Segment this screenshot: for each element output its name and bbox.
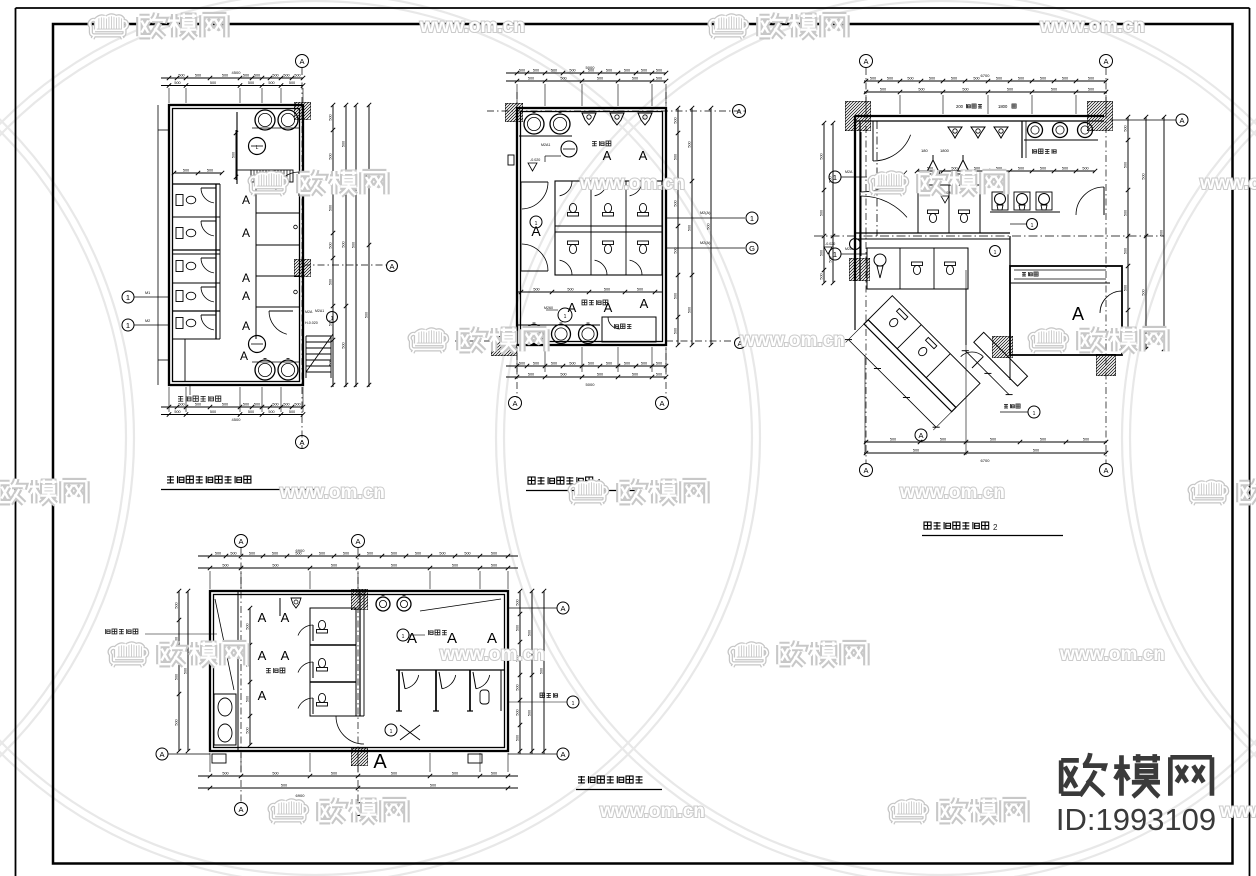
svg-text:1: 1 xyxy=(1031,223,1034,229)
svg-text:500: 500 xyxy=(1160,230,1164,236)
svg-text:A: A xyxy=(918,431,923,440)
svg-text:500: 500 xyxy=(674,117,678,123)
svg-text:500: 500 xyxy=(232,152,236,158)
svg-text:A: A xyxy=(258,610,267,625)
svg-text:A: A xyxy=(242,289,250,303)
svg-text:M2(A): M2(A) xyxy=(700,241,711,245)
svg-text:A: A xyxy=(258,648,267,663)
svg-text:A: A xyxy=(238,805,243,814)
svg-text:A: A xyxy=(281,648,290,663)
svg-text:6700: 6700 xyxy=(981,73,991,78)
svg-text:500: 500 xyxy=(1062,167,1068,171)
svg-text:500: 500 xyxy=(533,362,539,366)
svg-text:500: 500 xyxy=(560,77,566,81)
svg-text:500: 500 xyxy=(641,362,647,366)
svg-text:A: A xyxy=(281,610,290,625)
svg-text:500: 500 xyxy=(246,727,250,733)
svg-text:500: 500 xyxy=(1124,162,1128,168)
svg-text:500: 500 xyxy=(415,552,421,556)
svg-text:M1: M1 xyxy=(145,291,150,295)
svg-text:500: 500 xyxy=(195,403,201,407)
svg-text:500: 500 xyxy=(707,223,711,229)
svg-text:www.om.cn: www.om.cn xyxy=(1219,801,1256,822)
svg-text:500: 500 xyxy=(283,403,289,407)
svg-text:500: 500 xyxy=(283,74,289,78)
svg-text:500: 500 xyxy=(289,410,295,414)
svg-text:500: 500 xyxy=(215,552,221,556)
svg-text:500: 500 xyxy=(268,410,274,414)
svg-text:500: 500 xyxy=(820,210,824,216)
svg-text:500: 500 xyxy=(329,205,333,211)
svg-text:500: 500 xyxy=(329,279,333,285)
svg-text:500: 500 xyxy=(222,564,228,568)
svg-text:M2A1: M2A1 xyxy=(541,143,550,147)
svg-text:500: 500 xyxy=(516,625,520,631)
svg-text:500: 500 xyxy=(656,69,662,73)
svg-text:A: A xyxy=(1072,304,1084,324)
svg-text:500: 500 xyxy=(551,69,557,73)
svg-text:500: 500 xyxy=(254,403,260,407)
svg-text:500: 500 xyxy=(342,342,346,348)
svg-text:500: 500 xyxy=(533,288,539,292)
svg-text:A: A xyxy=(560,604,565,613)
svg-text:A: A xyxy=(1103,57,1108,66)
svg-text:1: 1 xyxy=(331,316,334,322)
svg-text:1: 1 xyxy=(833,173,837,182)
svg-text:500: 500 xyxy=(195,74,201,78)
svg-text:500: 500 xyxy=(880,88,886,92)
svg-text:500: 500 xyxy=(272,772,278,776)
svg-text:A: A xyxy=(1103,466,1108,475)
svg-text:500: 500 xyxy=(528,710,532,716)
svg-text:500: 500 xyxy=(996,77,1002,81)
svg-text:A: A xyxy=(560,750,565,759)
svg-text:A: A xyxy=(299,57,304,66)
svg-text:500: 500 xyxy=(927,167,933,171)
svg-text:500: 500 xyxy=(1040,77,1046,81)
svg-text:500: 500 xyxy=(519,69,525,73)
svg-text:A: A xyxy=(242,193,250,207)
svg-text:500: 500 xyxy=(289,81,295,85)
svg-text:500: 500 xyxy=(430,784,436,788)
svg-text:www.om.cn: www.om.cn xyxy=(1199,173,1256,194)
svg-text:www.om.cn: www.om.cn xyxy=(439,644,545,665)
svg-text:500: 500 xyxy=(230,552,236,556)
svg-text:L: L xyxy=(256,145,259,151)
svg-text:500: 500 xyxy=(870,77,876,81)
svg-text:500: 500 xyxy=(1124,210,1128,216)
svg-text:500: 500 xyxy=(540,668,544,674)
svg-text:500: 500 xyxy=(452,772,458,776)
svg-text:500: 500 xyxy=(588,362,594,366)
svg-text:www.om.cn: www.om.cn xyxy=(419,16,525,37)
svg-text:A: A xyxy=(603,148,612,163)
svg-text:500: 500 xyxy=(174,410,180,414)
svg-text:A: A xyxy=(373,751,387,773)
svg-text:500: 500 xyxy=(656,362,662,366)
svg-text:M2A: M2A xyxy=(305,310,313,314)
svg-text:500: 500 xyxy=(491,552,497,556)
svg-text:A: A xyxy=(639,148,648,163)
svg-text:500: 500 xyxy=(1083,438,1089,442)
svg-text:500: 500 xyxy=(174,81,180,85)
svg-text:500: 500 xyxy=(491,772,497,776)
svg-text:5000: 5000 xyxy=(586,382,596,387)
svg-text:500: 500 xyxy=(632,77,638,81)
svg-text:500: 500 xyxy=(281,784,287,788)
svg-text:500: 500 xyxy=(178,403,184,407)
svg-text:A: A xyxy=(512,399,517,408)
svg-text:500: 500 xyxy=(569,362,575,366)
svg-text:500: 500 xyxy=(175,719,179,725)
svg-text:500: 500 xyxy=(656,373,662,377)
svg-text:200: 200 xyxy=(956,104,964,109)
svg-text:www.om.cn: www.om.cn xyxy=(579,173,685,194)
svg-text:www.om.cn: www.om.cn xyxy=(1039,16,1145,37)
svg-text:500: 500 xyxy=(352,242,356,248)
svg-text:500: 500 xyxy=(248,410,254,414)
svg-text:500: 500 xyxy=(606,69,612,73)
svg-text:500: 500 xyxy=(243,403,249,407)
svg-text:500: 500 xyxy=(367,552,373,556)
svg-text:500: 500 xyxy=(1051,88,1057,92)
svg-text:180: 180 xyxy=(921,148,928,153)
svg-text:500: 500 xyxy=(519,362,525,366)
svg-text:500: 500 xyxy=(820,273,824,279)
svg-text:500: 500 xyxy=(365,312,369,318)
svg-text:1: 1 xyxy=(390,729,393,735)
svg-text:500: 500 xyxy=(913,449,919,453)
svg-text:6900: 6900 xyxy=(296,793,306,798)
svg-text:500: 500 xyxy=(254,74,260,78)
svg-text:1: 1 xyxy=(402,634,405,640)
svg-text:500: 500 xyxy=(210,410,216,414)
svg-text:500: 500 xyxy=(329,153,333,159)
svg-text:M2(A): M2(A) xyxy=(700,211,711,215)
svg-text:500: 500 xyxy=(248,81,254,85)
svg-text:500: 500 xyxy=(272,564,278,568)
svg-text:500: 500 xyxy=(222,74,228,78)
svg-text:500: 500 xyxy=(597,77,603,81)
svg-text:500: 500 xyxy=(1082,167,1088,171)
svg-text:www.om.cn: www.om.cn xyxy=(279,482,385,503)
svg-text:500: 500 xyxy=(528,630,532,636)
svg-text:1800: 1800 xyxy=(998,104,1008,109)
svg-text:500: 500 xyxy=(907,77,913,81)
svg-text:A: A xyxy=(242,319,250,333)
svg-text:ID:1993109: ID:1993109 xyxy=(1056,802,1216,837)
svg-text:500: 500 xyxy=(183,169,189,173)
svg-text:500: 500 xyxy=(641,69,647,73)
svg-text:500: 500 xyxy=(560,373,566,377)
svg-text:500: 500 xyxy=(1088,77,1094,81)
svg-text:500: 500 xyxy=(207,169,213,173)
svg-text:A: A xyxy=(238,537,243,546)
svg-text:5000: 5000 xyxy=(586,65,596,70)
svg-text:500: 500 xyxy=(391,772,397,776)
svg-text:500: 500 xyxy=(391,552,397,556)
svg-text:500: 500 xyxy=(222,403,228,407)
svg-text:500: 500 xyxy=(1062,77,1068,81)
svg-text:500: 500 xyxy=(329,359,333,365)
svg-text:500: 500 xyxy=(606,362,612,366)
svg-text:A: A xyxy=(863,466,868,475)
svg-text:500: 500 xyxy=(1040,438,1046,442)
svg-text:500: 500 xyxy=(391,564,397,568)
svg-text:500: 500 xyxy=(516,709,520,715)
svg-text:500: 500 xyxy=(688,141,692,147)
svg-text:500: 500 xyxy=(820,153,824,159)
svg-text:A: A xyxy=(659,399,664,408)
svg-text:1: 1 xyxy=(126,293,130,302)
svg-text:500: 500 xyxy=(820,250,824,256)
svg-text:500: 500 xyxy=(990,438,996,442)
svg-text:500: 500 xyxy=(1088,88,1094,92)
svg-text:500: 500 xyxy=(688,307,692,313)
svg-text:500: 500 xyxy=(1018,77,1024,81)
svg-text:500: 500 xyxy=(1007,88,1013,92)
svg-text:500: 500 xyxy=(329,242,333,248)
svg-text:500: 500 xyxy=(331,564,337,568)
svg-text:1: 1 xyxy=(572,701,575,707)
svg-text:500: 500 xyxy=(1040,167,1046,171)
svg-text:www.om.cn: www.om.cn xyxy=(599,801,705,822)
svg-text:500: 500 xyxy=(1124,248,1128,254)
svg-text:500: 500 xyxy=(674,293,678,299)
svg-text:1: 1 xyxy=(994,250,997,256)
svg-text:M2A: M2A xyxy=(845,170,853,174)
svg-text:500: 500 xyxy=(491,564,497,568)
svg-text:A: A xyxy=(258,688,267,703)
svg-text:G: G xyxy=(749,244,755,253)
svg-text:M2: M2 xyxy=(145,319,150,323)
svg-text:6700: 6700 xyxy=(981,458,991,463)
svg-text:A: A xyxy=(242,226,250,240)
svg-text:500: 500 xyxy=(272,403,278,407)
svg-text:500: 500 xyxy=(656,77,662,81)
svg-text:500: 500 xyxy=(243,74,249,78)
svg-text:500: 500 xyxy=(516,599,520,605)
svg-text:500: 500 xyxy=(516,735,520,741)
svg-text:A: A xyxy=(299,438,304,447)
svg-text:1800: 1800 xyxy=(940,148,950,153)
svg-text:500: 500 xyxy=(331,772,337,776)
svg-text:M2A1: M2A1 xyxy=(315,309,324,313)
svg-text:A: A xyxy=(240,349,248,363)
svg-text:500: 500 xyxy=(342,241,346,247)
svg-text:500: 500 xyxy=(222,772,228,776)
svg-text:500: 500 xyxy=(940,438,946,442)
svg-text:2: 2 xyxy=(993,523,998,532)
svg-text:A: A xyxy=(355,537,360,546)
svg-text:500: 500 xyxy=(178,74,184,78)
svg-text:500: 500 xyxy=(452,564,458,568)
svg-text:A: A xyxy=(389,262,394,271)
svg-text:500: 500 xyxy=(929,77,935,81)
svg-text:M260: M260 xyxy=(544,306,553,310)
svg-text:500: 500 xyxy=(246,623,250,629)
svg-text:500: 500 xyxy=(951,77,957,81)
svg-text:500: 500 xyxy=(272,552,278,556)
svg-text:A: A xyxy=(568,300,577,315)
svg-text:500: 500 xyxy=(184,668,188,674)
svg-text:6900: 6900 xyxy=(296,548,306,553)
svg-text:500: 500 xyxy=(294,403,300,407)
svg-text:500: 500 xyxy=(674,328,678,334)
svg-text:500: 500 xyxy=(597,373,603,377)
svg-text:4500: 4500 xyxy=(232,417,242,422)
svg-text:500: 500 xyxy=(674,200,678,206)
svg-text:500: 500 xyxy=(528,77,534,81)
svg-text:1: 1 xyxy=(126,321,130,330)
svg-text:500: 500 xyxy=(268,81,274,85)
svg-text:500: 500 xyxy=(887,77,893,81)
svg-text:500: 500 xyxy=(342,141,346,147)
svg-text:500: 500 xyxy=(624,362,630,366)
svg-text:-0.020: -0.020 xyxy=(825,242,835,246)
svg-text:500: 500 xyxy=(632,373,638,377)
svg-text:500: 500 xyxy=(175,674,179,680)
svg-text:500: 500 xyxy=(246,696,250,702)
svg-text:A: A xyxy=(640,296,649,311)
svg-text:www.om.cn: www.om.cn xyxy=(899,482,1005,503)
svg-text:500: 500 xyxy=(272,74,278,78)
svg-text:1: 1 xyxy=(833,250,837,259)
svg-text:500: 500 xyxy=(175,602,179,608)
svg-text:500: 500 xyxy=(624,69,630,73)
svg-text:M2A: M2A xyxy=(845,247,853,251)
svg-text:500: 500 xyxy=(294,74,300,78)
svg-text:500: 500 xyxy=(343,552,349,556)
svg-text:500: 500 xyxy=(1142,173,1146,179)
svg-text:-0.020: -0.020 xyxy=(530,158,540,162)
svg-text:500: 500 xyxy=(918,88,924,92)
svg-text:www.om.cn: www.om.cn xyxy=(739,330,845,351)
svg-text:A: A xyxy=(736,107,741,116)
svg-text:500: 500 xyxy=(516,684,520,690)
svg-text:H-0.020: H-0.020 xyxy=(305,321,318,325)
svg-text:500: 500 xyxy=(551,362,557,366)
svg-text:500: 500 xyxy=(567,288,573,292)
svg-text:500: 500 xyxy=(1124,285,1128,291)
svg-text:1: 1 xyxy=(1033,411,1036,417)
svg-text:500: 500 xyxy=(973,77,979,81)
svg-text:500: 500 xyxy=(951,167,957,171)
svg-text:500: 500 xyxy=(329,114,333,120)
svg-text:A: A xyxy=(242,271,250,285)
svg-text:500: 500 xyxy=(1033,449,1039,453)
svg-text:500: 500 xyxy=(1018,167,1024,171)
svg-text:500: 500 xyxy=(674,154,678,160)
svg-text:500: 500 xyxy=(1142,289,1146,295)
svg-text:500: 500 xyxy=(890,438,896,442)
svg-text:500: 500 xyxy=(464,552,470,556)
svg-text:500: 500 xyxy=(528,373,534,377)
svg-text:1: 1 xyxy=(750,214,754,223)
svg-text:500: 500 xyxy=(637,288,643,292)
svg-text:www.om.cn: www.om.cn xyxy=(1059,644,1165,665)
svg-text:A: A xyxy=(407,630,417,647)
svg-text:A: A xyxy=(1179,116,1184,125)
svg-text:500: 500 xyxy=(319,552,325,556)
svg-text:500: 500 xyxy=(604,288,610,292)
svg-text:1: 1 xyxy=(535,221,538,227)
svg-text:500: 500 xyxy=(962,88,968,92)
svg-text:500: 500 xyxy=(439,552,445,556)
svg-text:500: 500 xyxy=(688,225,692,231)
svg-text:1: 1 xyxy=(564,314,567,320)
svg-text:500: 500 xyxy=(569,69,575,73)
svg-text:500: 500 xyxy=(533,69,539,73)
svg-text:500: 500 xyxy=(1124,125,1128,131)
svg-text:A: A xyxy=(863,57,868,66)
svg-text:500: 500 xyxy=(249,552,255,556)
svg-text:4500: 4500 xyxy=(232,70,242,75)
svg-text:A: A xyxy=(159,750,164,759)
svg-text:500: 500 xyxy=(210,81,216,85)
svg-text:A: A xyxy=(604,300,613,315)
